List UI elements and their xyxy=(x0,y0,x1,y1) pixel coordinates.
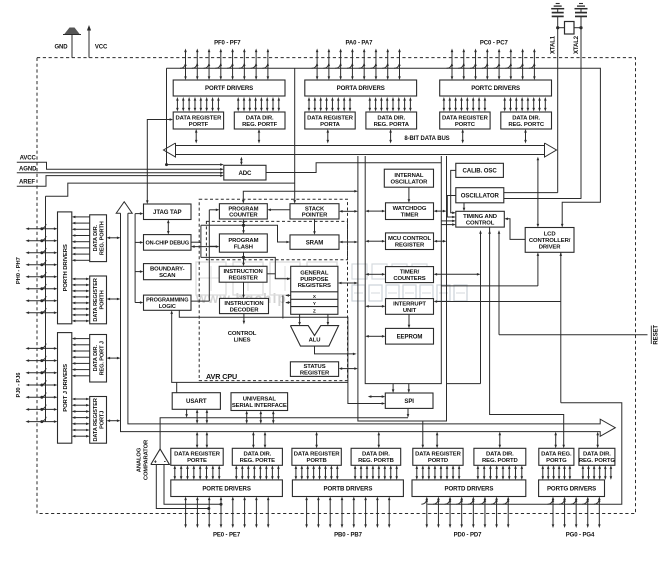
svg-text:DECODER: DECODER xyxy=(230,307,260,313)
wire comparator output xyxy=(160,418,408,449)
wire analog left bus vertical xyxy=(46,183,295,196)
svg-text:RESET: RESET xyxy=(654,325,660,345)
svg-text:DATA REGISTER: DATA REGISTER xyxy=(307,115,354,121)
svg-text:PORTE DRIVERS: PORTE DRIVERS xyxy=(202,485,251,492)
wire eeprom left to rail xyxy=(368,335,382,337)
svg-text:INTERNAL: INTERNAL xyxy=(394,173,423,179)
DATA REGISTER PORTA block xyxy=(305,112,355,129)
svg-text:CONTROL: CONTROL xyxy=(228,331,257,337)
svg-text:DATA REGISTER: DATA REGISTER xyxy=(415,452,462,458)
wires bus to PORTD registers xyxy=(436,435,438,446)
wire comparator input from PE pin xyxy=(156,465,209,509)
wire XTAL2 vertical xyxy=(580,16,582,199)
MCU CONTROL REGISTER block xyxy=(386,233,434,250)
wire data dir PORTJ to internal bus xyxy=(110,357,118,359)
svg-text:ANALOG: ANALOG xyxy=(137,447,143,472)
svg-text:REG. PORTH: REG. PORTH xyxy=(99,221,105,255)
svg-text:AVR CPU: AVR CPU xyxy=(206,372,237,381)
wire data register PORTJ to internal bus xyxy=(110,420,118,422)
svg-text:PORTF DRIVERS: PORTF DRIVERS xyxy=(205,85,253,92)
DATA DIR. REG. PORTC block xyxy=(501,112,552,129)
junction node on XTAL1 xyxy=(556,26,559,29)
svg-text:DATA DIR.: DATA DIR. xyxy=(583,452,611,458)
svg-text:PORTF: PORTF xyxy=(189,122,209,128)
svg-text:REG. PORTD: REG. PORTD xyxy=(482,458,518,464)
wires data dir reg PORTH to drivers xyxy=(75,216,90,218)
wires data dir reg PORTJ to drivers xyxy=(75,338,90,340)
wire oscillator to XTAL2 xyxy=(504,198,581,200)
wire watchdog left to rail xyxy=(368,210,382,212)
wire timing to RESET xyxy=(498,233,500,335)
svg-text:REGISTERS: REGISTERS xyxy=(298,283,331,289)
svg-text:PORTH DRIVERS: PORTH DRIVERS xyxy=(63,244,69,291)
wires GPR X Y rows to left xyxy=(286,294,291,296)
wire ADC output to timing and control xyxy=(266,163,441,173)
svg-text:LINES: LINES xyxy=(234,337,251,343)
svg-text:TIMING AND: TIMING AND xyxy=(463,214,497,220)
svg-text:PROGRAM: PROGRAM xyxy=(228,238,258,244)
svg-text:PORTJ: PORTJ xyxy=(99,411,105,429)
wire SPI left to rail xyxy=(371,396,383,398)
svg-text:DATA REGISTER: DATA REGISTER xyxy=(294,452,341,458)
svg-text:DATA REGISTER: DATA REGISTER xyxy=(442,115,489,121)
wires inner enclosure to SPI top xyxy=(392,384,394,390)
CALIB. OSC block xyxy=(456,163,504,177)
wire RESET input xyxy=(499,334,648,336)
wire instruction register to GPR xyxy=(267,273,275,275)
svg-text:PD0 - PD7: PD0 - PD7 xyxy=(454,533,483,539)
svg-text:PURPOSE: PURPOSE xyxy=(300,277,328,283)
wire to BOUNDARY-SCAN left xyxy=(135,271,140,273)
svg-text:COMPARATOR: COMPARATOR xyxy=(144,439,150,480)
memory section dashed boundary xyxy=(206,221,347,259)
JTAG TAP block xyxy=(144,204,192,220)
wire interrupt to EEPROM xyxy=(408,314,410,325)
8-BIT DATA BUS hollow arrow xyxy=(176,145,545,147)
wire data dir reg PORTF to data bus xyxy=(258,132,260,141)
svg-text:STATUS: STATUS xyxy=(303,364,325,370)
GENERAL PURPOSE REGISTERS block with X Y Z xyxy=(291,266,338,314)
svg-text:SRAM: SRAM xyxy=(306,239,324,246)
svg-text:XTAL2: XTAL2 xyxy=(574,35,580,54)
ANALOG COMPARATOR triangle xyxy=(151,449,170,465)
svg-text:USART: USART xyxy=(186,398,207,405)
crystal Y1 xyxy=(558,27,565,29)
wire MCU control right to rail xyxy=(437,240,444,242)
svg-text:VCC: VCC xyxy=(95,45,108,51)
DATA DIR. REG. PORTH block xyxy=(90,215,107,262)
PORTF DRIVERS block xyxy=(173,80,285,96)
svg-text:PORTD DRIVERS: PORTD DRIVERS xyxy=(444,485,493,492)
svg-text:WATCHDOG: WATCHDOG xyxy=(393,206,427,212)
outer dashed chip boundary xyxy=(37,58,636,514)
DATA DIR. REG. PORTG block xyxy=(579,448,615,465)
svg-text:DATA REGISTER: DATA REGISTER xyxy=(93,278,99,321)
svg-text:XTAL1: XTAL1 xyxy=(551,35,557,54)
svg-text:DATA DIR.: DATA DIR. xyxy=(93,345,99,372)
USART block xyxy=(172,393,220,410)
wire PC loop left xyxy=(209,209,216,211)
wire programming logic to SPI xyxy=(179,310,382,403)
svg-text:PORTB: PORTB xyxy=(307,458,327,464)
wire data dir PORTH to internal bus xyxy=(110,237,118,239)
PORTE DRIVERS block xyxy=(171,480,283,497)
wires drivers to data register PORTA xyxy=(308,100,310,109)
svg-text:PORTG: PORTG xyxy=(546,458,567,464)
wire data bus to LCD xyxy=(537,160,539,225)
wires drivers to data register PORTC xyxy=(443,100,445,109)
node PC-flash to SRAM xyxy=(242,224,245,227)
svg-text:8-BIT DATA BUS: 8-BIT DATA BUS xyxy=(404,136,449,142)
svg-text:DATA DIR.: DATA DIR. xyxy=(93,224,99,251)
svg-text:PORTB DRIVERS: PORTB DRIVERS xyxy=(323,485,372,492)
OSCILLATOR block xyxy=(456,188,504,203)
svg-text:TIMER/: TIMER/ xyxy=(400,270,420,276)
svg-text:PORTC: PORTC xyxy=(455,122,476,128)
svg-text:INSTRUCTION: INSTRUCTION xyxy=(224,269,263,275)
PROGRAM COUNTER block xyxy=(219,204,267,219)
svg-text:PH0 - PH7: PH0 - PH7 xyxy=(16,257,22,284)
DATA REGISTER PORTF block xyxy=(173,112,223,129)
wire GPR to right rail xyxy=(341,282,355,284)
wire LCD feed lower xyxy=(441,285,538,287)
PORTH DRIVERS block xyxy=(58,212,72,324)
svg-text:SPI: SPI xyxy=(404,398,414,405)
svg-text:DATA DIR.: DATA DIR. xyxy=(243,452,271,458)
svg-text:PROGRAM: PROGRAM xyxy=(228,206,258,212)
wire oscillator to XTAL1 xyxy=(504,192,558,194)
svg-text:Y: Y xyxy=(313,301,316,306)
wires registers to PORTG drivers xyxy=(542,468,544,477)
wires registers to PORTE drivers xyxy=(174,468,176,477)
wire timing to data register PORTG xyxy=(490,227,564,445)
wire program counter to program flash xyxy=(243,222,245,231)
wires bus to PORTB registers xyxy=(316,435,318,446)
ground symbol for XTAL1 capacitor xyxy=(551,8,564,10)
wire watchdog right to rail xyxy=(437,210,444,212)
wire programming logic serial rail xyxy=(172,313,348,382)
wire to PROGRAMMING LOGIC left xyxy=(135,302,140,304)
ADC block xyxy=(224,165,266,180)
wire stack pointer to right rail xyxy=(342,210,355,212)
PROGRAM FLASH block xyxy=(219,234,267,252)
ground symbol for XTAL2 capacitor xyxy=(575,8,588,10)
SRAM block xyxy=(290,235,339,249)
svg-text:PORTH: PORTH xyxy=(99,290,105,309)
wire interrupt left to rail xyxy=(368,305,382,307)
port A pin lines with direction ticks xyxy=(316,52,318,78)
WATCHDOG TIMER block xyxy=(386,203,434,220)
wires registers to PORTD drivers xyxy=(416,468,418,477)
wire AREF xyxy=(17,176,221,187)
wire data dir reg PORTA to data bus xyxy=(390,132,392,141)
timing control outputs down xyxy=(480,233,482,384)
wire oscillator down to timing xyxy=(463,203,465,209)
wires drivers to data register PORTF xyxy=(176,100,178,109)
svg-text:COUNTER: COUNTER xyxy=(229,213,258,219)
svg-text:REGISTER: REGISTER xyxy=(395,243,425,249)
wire stack pointer to PC xyxy=(270,209,290,211)
ALU block xyxy=(290,326,338,347)
svg-text:REG. PORTG: REG. PORTG xyxy=(579,458,616,464)
wires registers to PORTB drivers xyxy=(295,468,297,477)
wire outer enclosure drop to data register PORTD xyxy=(422,421,424,445)
wire AVCC xyxy=(17,162,221,169)
wires drivers to data dir reg PORTF xyxy=(237,100,239,109)
LCD CONTROLLER/DRIVER block xyxy=(525,228,574,253)
svg-text:PA0 - PA7: PA0 - PA7 xyxy=(345,41,373,47)
PROGRAMMING LOGIC block xyxy=(144,295,192,310)
VCC supply arrow xyxy=(88,30,90,58)
port B pin lines xyxy=(306,500,308,526)
svg-text:-: - xyxy=(164,458,166,465)
wires data register PORTH to drivers xyxy=(75,278,87,280)
wire MCU control left to rail xyxy=(368,240,382,242)
ON-CHIP DEBUG block xyxy=(144,235,192,251)
svg-text:UNIT: UNIT xyxy=(403,308,417,314)
svg-text:PC0 - PC7: PC0 - PC7 xyxy=(480,41,509,47)
svg-text:SCAN: SCAN xyxy=(159,273,175,279)
DATA DIR. REG. PORTA block xyxy=(366,112,417,129)
capacitor C (XTAL2) xyxy=(580,9,582,13)
svg-text:LOGIC: LOGIC xyxy=(159,304,176,310)
port F pin lines with direction ticks xyxy=(185,52,187,78)
svg-text:DATA REGISTER: DATA REGISTER xyxy=(174,452,221,458)
svg-text:SERIAL INTERFACE: SERIAL INTERFACE xyxy=(232,403,287,409)
wire status register to right rail xyxy=(342,368,355,370)
PORTJ pin lines with ticks and bus dots xyxy=(29,347,55,349)
DATA REGISTER PORTJ block xyxy=(90,397,107,444)
svg-text:STACK: STACK xyxy=(305,206,325,212)
wire into program flash left xyxy=(209,245,216,247)
svg-text:BOUNDARY-: BOUNDARY- xyxy=(150,267,185,273)
svg-text:PORTA DRIVERS: PORTA DRIVERS xyxy=(337,85,385,92)
svg-text:OSCILLATOR: OSCILLATOR xyxy=(461,192,500,199)
wire JTAG column feed xyxy=(134,214,136,303)
svg-text:DATA DIR.: DATA DIR. xyxy=(486,452,514,458)
svg-text:FLASH: FLASH xyxy=(234,244,253,250)
svg-text:PG0 - PG4: PG0 - PG4 xyxy=(566,533,595,539)
wires data register PORTJ to drivers xyxy=(75,398,87,400)
svg-text:DRIVER: DRIVER xyxy=(539,244,562,250)
EEPROM block xyxy=(386,328,434,344)
wire data dir reg PORTC to data bus xyxy=(525,132,527,141)
svg-text:PORTA: PORTA xyxy=(320,122,341,128)
wire AGND xyxy=(17,172,221,174)
wire SPI bottom to port D register drop xyxy=(407,408,409,414)
DATA REGISTER PORTC block xyxy=(440,112,490,129)
svg-text:COUNTERS: COUNTERS xyxy=(393,276,425,282)
svg-text:INSTRUCTION: INSTRUCTION xyxy=(224,301,263,307)
svg-text:PJ0 - PJ6: PJ0 - PJ6 xyxy=(16,372,22,398)
DATA REGISTER PORTB block xyxy=(292,448,341,465)
DATA DIR. REG. PORTF block xyxy=(234,112,285,129)
watermark hqchip glyph blocks (decorative) xyxy=(196,262,226,295)
svg-text:GENERAL: GENERAL xyxy=(300,270,329,276)
INSTRUCTION DECODER block xyxy=(220,298,269,313)
wires USART to bus lines and data register PORTE xyxy=(186,409,188,414)
wire JTAG TAP to ON-CHIP DEBUG xyxy=(167,223,169,232)
PORTG DRIVERS block xyxy=(539,480,605,497)
svg-text:REGISTER: REGISTER xyxy=(228,276,258,282)
wire to JTAG TAP left xyxy=(135,213,140,215)
STATUS REGISTER block xyxy=(290,362,338,377)
svg-text:PB0 - PB7: PB0 - PB7 xyxy=(334,533,363,539)
wire comparator input from PE pin 2 xyxy=(164,465,221,505)
wire timer right to timing column xyxy=(437,273,478,275)
PORTC DRIVERS block xyxy=(440,80,552,96)
svg-text:DATA DIR.: DATA DIR. xyxy=(512,115,540,121)
svg-text:DATA DIR.: DATA DIR. xyxy=(377,115,405,121)
svg-text:REG. PORTE: REG. PORTE xyxy=(240,458,276,464)
port G pin lines xyxy=(552,500,554,526)
wire timer left to rail xyxy=(368,273,382,275)
wire data register PORTH to internal bus xyxy=(110,298,118,300)
wire flash to instruction register xyxy=(243,252,245,263)
svg-text:DATA REG.: DATA REG. xyxy=(541,452,572,458)
svg-text:DATA REGISTER: DATA REGISTER xyxy=(93,398,99,441)
svg-text:AREF: AREF xyxy=(19,179,35,185)
INTERRUPT UNIT block xyxy=(386,299,434,315)
svg-text:PORTD: PORTD xyxy=(428,458,448,464)
svg-text:CONTROL: CONTROL xyxy=(466,221,495,227)
svg-text:AGND: AGND xyxy=(19,166,37,172)
svg-text:Z: Z xyxy=(313,309,316,314)
svg-text:JTAG TAP: JTAG TAP xyxy=(153,209,181,216)
DATA DIR. REG. PORTD block xyxy=(474,448,526,465)
svg-text:REG. PORT J: REG. PORT J xyxy=(99,341,105,375)
DATA DIR. REG. PORT J block xyxy=(90,335,107,383)
svg-text:PORTC DRIVERS: PORTC DRIVERS xyxy=(471,85,520,92)
DATA DIR. REG. PORTB block xyxy=(351,448,401,465)
svg-text:PROGRAMMING: PROGRAMMING xyxy=(146,297,188,303)
wire from data register PORTF to JTAG TAP xyxy=(147,120,170,202)
DATA REG. PORTG block xyxy=(539,448,574,465)
svg-text:EEPROM: EEPROM xyxy=(397,333,423,340)
PORT J DRIVERS block xyxy=(58,333,72,444)
wire internal osc to watchdog xyxy=(408,187,410,200)
wire decoder to control lines xyxy=(243,314,245,322)
svg-text:REG. PORTA: REG. PORTA xyxy=(374,122,410,128)
AVR CPU dashed boundary xyxy=(199,199,347,380)
PORTA DRIVERS block xyxy=(305,80,417,96)
node flash-IR to general purpose registers xyxy=(242,256,245,259)
wire LCD to bottom-right wrap xyxy=(560,252,562,402)
PORTH pin lines with ticks and bus dots xyxy=(29,228,55,230)
DATA DIR. REG. PORTE block xyxy=(232,448,282,465)
INSTRUCTION REGISTER block xyxy=(219,266,267,282)
wire ALU output to right rail xyxy=(315,346,354,354)
svg-text:PORT J DRIVERS: PORT J DRIVERS xyxy=(63,364,69,412)
wire program counter feed from peripheral rail xyxy=(243,191,355,201)
svg-text:REGISTER: REGISTER xyxy=(300,370,330,376)
svg-text:CALIB. OSC: CALIB. OSC xyxy=(462,168,497,175)
svg-text:TIMER: TIMER xyxy=(401,212,420,218)
port D pin lines xyxy=(426,500,428,526)
svg-text:ON-CHIP DEBUG: ON-CHIP DEBUG xyxy=(145,240,189,246)
wire stack pointer to SRAM xyxy=(314,219,316,232)
wire top rail to LCD controller xyxy=(167,68,601,224)
junction node on XTAL2 xyxy=(579,26,582,29)
ground symbol GND xyxy=(71,34,73,58)
svg-text:REG. PORTF: REG. PORTF xyxy=(242,122,278,128)
svg-text:UNIVERSAL: UNIVERSAL xyxy=(243,397,277,403)
wires bus to PORTG registers xyxy=(555,435,557,446)
svg-text:PF0 - PF7: PF0 - PF7 xyxy=(214,41,241,47)
wire to ON-CHIP DEBUG left xyxy=(135,241,140,243)
wire data register PORTF to data bus xyxy=(195,132,197,141)
wire programming logic to flash loop xyxy=(191,300,209,302)
DATA REGISTER PORTH block xyxy=(90,276,107,324)
svg-text:REG. PORTC: REG. PORTC xyxy=(508,122,545,128)
svg-text:CONTROLLER/: CONTROLLER/ xyxy=(529,238,571,244)
peripheral inner enclosure xyxy=(365,156,441,384)
wires drivers to data dir reg PORTA xyxy=(369,100,371,109)
svg-text:GND: GND xyxy=(54,45,68,51)
wire interrupt right to LCD column xyxy=(437,301,561,303)
svg-text:OSCILLATOR: OSCILLATOR xyxy=(391,180,429,186)
wire LCD to timing and control xyxy=(507,219,525,240)
capacitor C (XTAL1) xyxy=(557,9,559,13)
peripheral outer enclosure xyxy=(358,156,447,421)
TIMING AND CONTROL block xyxy=(456,211,505,227)
UNIVERSAL SERIAL INTERFACE block xyxy=(231,393,288,411)
port E pin lines xyxy=(185,500,187,526)
svg-text:ALU: ALU xyxy=(309,337,321,343)
wire inner rail to timing xyxy=(441,224,453,226)
svg-text:INTERRUPT: INTERRUPT xyxy=(393,301,426,307)
svg-text:AVCC: AVCC xyxy=(20,156,37,162)
svg-text:DATA DIR.: DATA DIR. xyxy=(362,452,390,458)
wire IR to instruction decoder xyxy=(243,282,245,295)
svg-text:PORTG DRIVERS: PORTG DRIVERS xyxy=(547,485,596,492)
DATA REGISTER PORTD block xyxy=(413,448,463,465)
wire data register PORTA to data bus xyxy=(327,132,329,141)
svg-text:PORTE: PORTE xyxy=(187,458,207,464)
PORTB DRIVERS block xyxy=(292,480,403,497)
svg-text:DATA REGISTER: DATA REGISTER xyxy=(176,115,223,121)
wire OCD to program flash xyxy=(194,246,216,248)
wire internal reference from ADC/LCD loop into ADC xyxy=(167,68,221,164)
wire XTAL1 vertical xyxy=(557,16,559,192)
svg-text:ADC: ADC xyxy=(238,170,252,177)
wire USART to serial rail xyxy=(176,382,178,392)
wires USI to bus lines and data dir PORTE xyxy=(246,414,248,421)
wires drivers to data dir reg PORTC xyxy=(504,100,506,109)
wire calib osc to timing and control xyxy=(451,170,456,212)
svg-text:POINTER: POINTER xyxy=(302,213,328,219)
svg-text:REG. PORTB: REG. PORTB xyxy=(358,458,394,464)
TIMER/COUNTERS block xyxy=(386,267,434,283)
internal bus hollow arrow (L-shaped) xyxy=(116,202,132,214)
svg-text:LCD: LCD xyxy=(544,232,556,238)
wires GPR to ALU xyxy=(299,314,301,322)
wire SRAM to right rail xyxy=(342,241,355,243)
wire OCD to flash output node xyxy=(191,241,201,243)
PORTD DRIVERS block xyxy=(412,480,526,497)
svg-text:+: + xyxy=(154,459,157,465)
wire data register PORTC to data bus xyxy=(462,132,464,141)
svg-text:DATA DIR.: DATA DIR. xyxy=(246,115,274,121)
svg-text:MCU CONTROL: MCU CONTROL xyxy=(388,236,432,242)
port C pin lines with direction ticks xyxy=(451,52,453,78)
INTERNAL OSCILLATOR block xyxy=(384,169,433,187)
STACK POINTER block xyxy=(290,204,339,219)
svg-text:PE0 - PE7: PE0 - PE7 xyxy=(213,533,241,539)
SPI block xyxy=(385,393,433,408)
wire oscillator to timing and control xyxy=(447,196,456,218)
DATA REGISTER PORTE block xyxy=(171,448,223,465)
